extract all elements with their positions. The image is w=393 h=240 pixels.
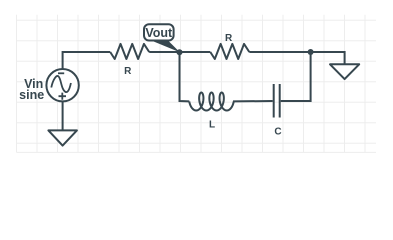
svg-text:Vout: Vout [145, 26, 173, 40]
svg-text:R: R [225, 33, 233, 44]
inductor L [189, 93, 233, 111]
svg-text:C: C [274, 127, 281, 138]
voltage source V1 circle [46, 69, 78, 101]
svg-text:L: L [209, 120, 215, 131]
svg-text:R: R [124, 66, 132, 77]
wire top from source to R1 [63, 52, 111, 69]
wire node Vout to R2 [180, 51, 211, 53]
source plus sign [59, 93, 67, 100]
wire source to ground [62, 101, 64, 130]
resistor R2 [210, 44, 249, 59]
svg-text:sine: sine [19, 88, 44, 102]
node right junction dot [308, 49, 314, 55]
wire inductor to capacitor [233, 100, 273, 102]
ground right [330, 64, 359, 79]
ground left [48, 130, 77, 145]
wire R1 to node Vout [149, 51, 179, 53]
wire node right to ground stub [311, 52, 345, 64]
source sine wave [51, 76, 71, 92]
wire capacitor to right riser [281, 52, 311, 101]
wire R2 to node right [249, 51, 310, 53]
capacitor C plates [274, 84, 280, 118]
resistor R1 [110, 44, 149, 59]
node Vout junction dot [177, 49, 183, 55]
Vout callout box [144, 24, 174, 40]
source minus sign [58, 72, 64, 74]
Vout callout pointer [149, 40, 180, 53]
wire node Vout down to bottom branch [180, 52, 190, 101]
